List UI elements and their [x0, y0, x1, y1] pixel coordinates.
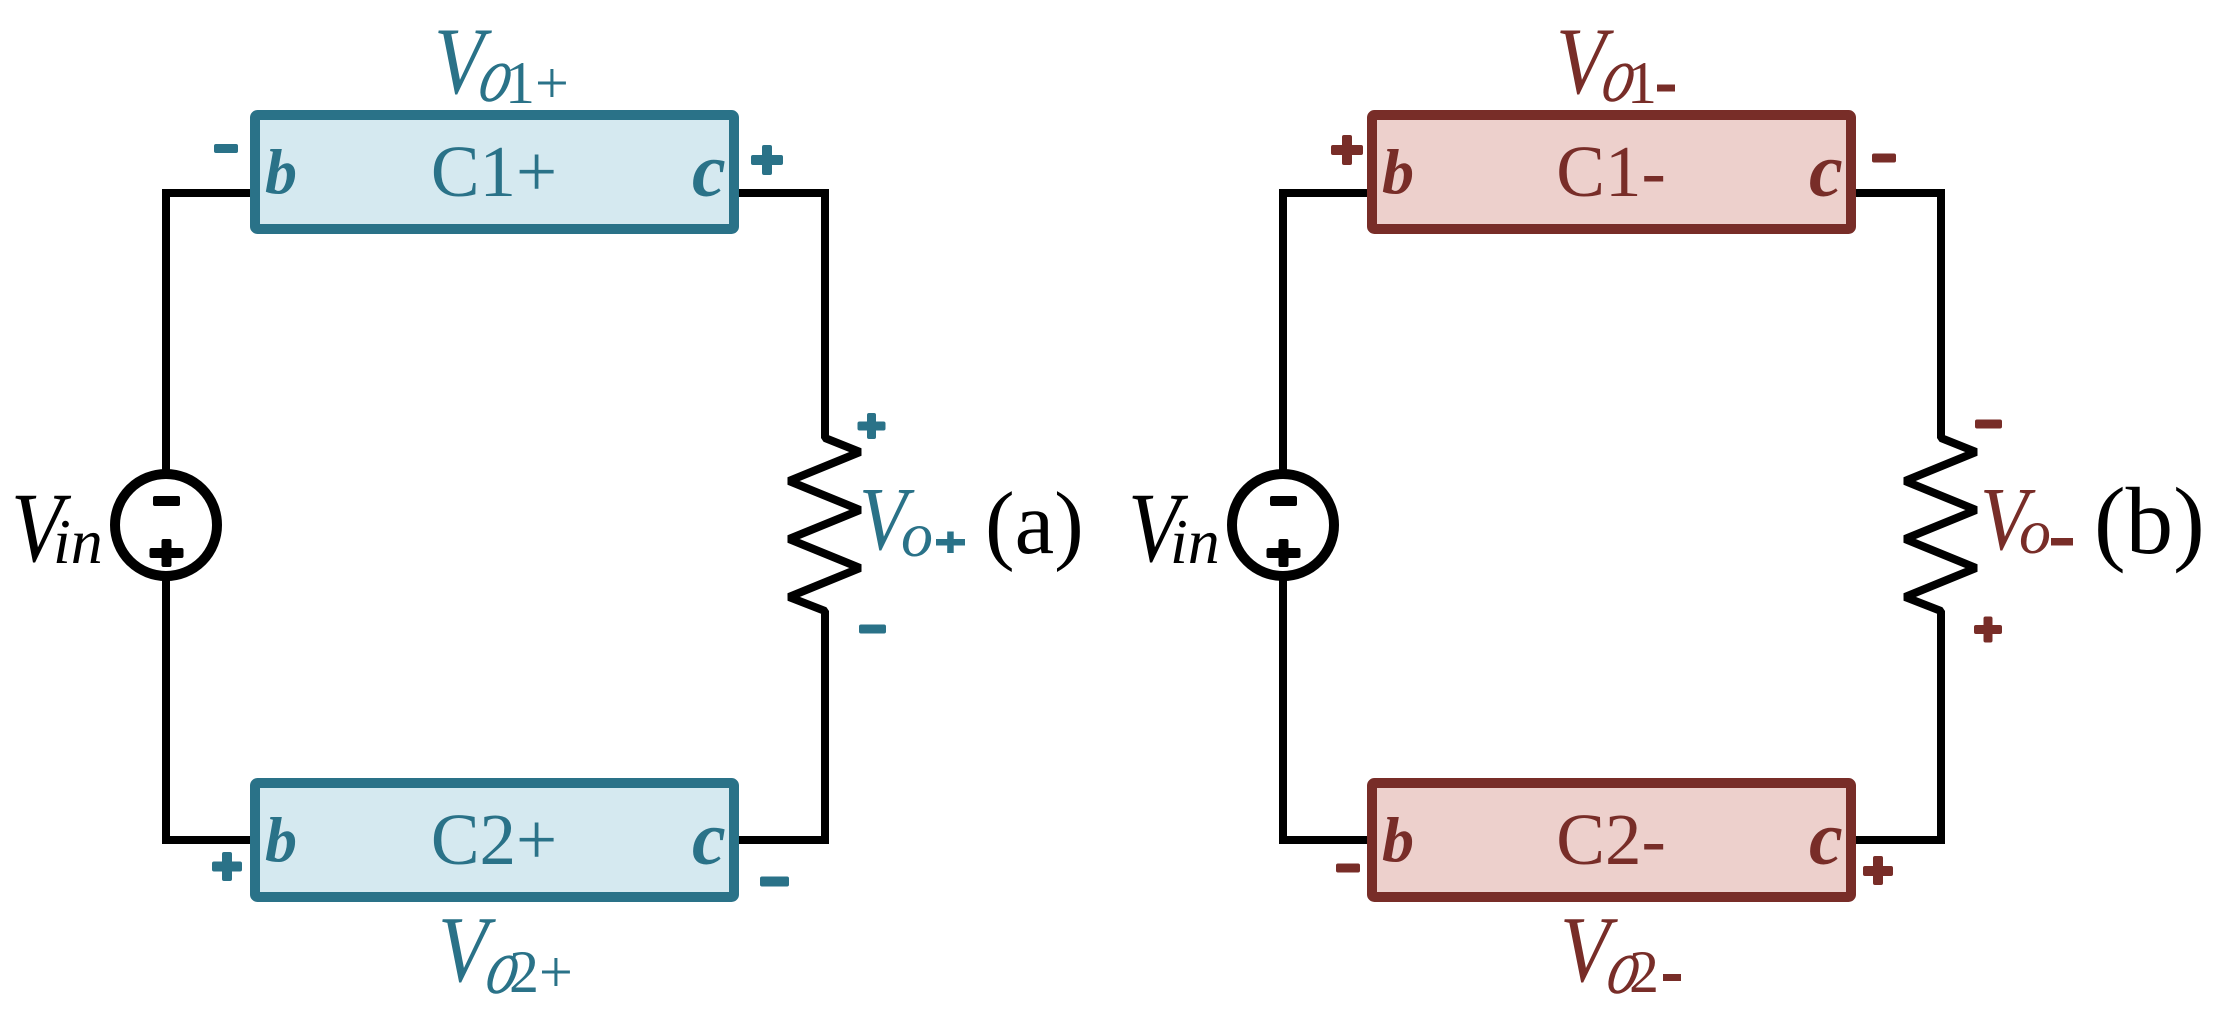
svg-text:c: c: [692, 129, 726, 213]
plus sign right of C1+: [751, 155, 783, 165]
wire: left bottom L (Vin bottom to C2+ b terminal): [166, 578, 258, 840]
wire: left top L (Vin top to C1- b terminal): [1283, 193, 1375, 473]
svg-text:(b): (b): [2094, 468, 2205, 574]
minus sign right of C1-: [1872, 154, 1896, 163]
svg-text:2: 2: [1629, 939, 1659, 1005]
svg-text:C1-: C1-: [1556, 131, 1666, 212]
plus sign left of C1-: [1331, 145, 1363, 155]
block C2-: [1372, 783, 1851, 897]
svg-text:(a): (a): [985, 475, 1084, 573]
plus sign above resistor Ro+: [858, 422, 886, 431]
svg-text:C2+: C2+: [431, 799, 557, 880]
wire: top right L (C1- c terminal to resistor top): [1853, 193, 1941, 405]
svg-text:C1+: C1+: [431, 131, 557, 212]
voltage source Vin (a) circle: [115, 474, 217, 576]
svg-text:1: 1: [1627, 50, 1657, 116]
block C1-: [1372, 115, 1851, 229]
block C1+: [255, 115, 734, 229]
minus sign right of C2+: [760, 877, 789, 887]
svg-text:c: c: [1809, 129, 1843, 213]
plus sign below resistor Ro-: [1974, 625, 2002, 634]
wire: left bottom L (Vin bottom to C2- b terminal): [1283, 578, 1375, 840]
plus sign right of C2-: [1863, 866, 1893, 876]
source Vin (b) plus sign: [1267, 548, 1301, 558]
source Vin (a) minus sign: [153, 496, 180, 506]
voltage source Vin (b) circle: [1232, 474, 1334, 576]
wire: top right L (C1+ c terminal to resistor top): [736, 193, 825, 405]
source Vin (b) minus sign: [1270, 496, 1297, 506]
svg-text:o: o: [901, 499, 933, 570]
svg-text:1+: 1+: [505, 50, 569, 116]
svg-text:o: o: [2019, 496, 2051, 567]
wire: bottom right L (resistor bottom to C2+ c terminal): [736, 645, 825, 840]
minus sign below resistor Ro+: [859, 625, 886, 634]
resistor Ro- zigzag: [1905, 400, 1976, 650]
svg-text:in: in: [53, 506, 103, 577]
plus sign left of C2+: [212, 862, 242, 872]
resistor Ro+ zigzag: [789, 400, 860, 650]
svg-text:in: in: [1170, 506, 1220, 577]
svg-text:2+: 2+: [509, 939, 573, 1005]
svg-text:b: b: [265, 804, 297, 875]
svg-text:b: b: [265, 136, 297, 207]
block C2+: [255, 783, 734, 897]
svg-text:b: b: [1382, 136, 1414, 207]
minus sign left of C2-: [1336, 864, 1360, 873]
source Vin (a) plus sign: [150, 548, 184, 558]
svg-text:b: b: [1382, 804, 1414, 875]
minus sign left of C1+: [214, 144, 238, 153]
wire: left top L (Vin top to C1+ b terminal): [166, 193, 258, 473]
svg-text:C2-: C2-: [1556, 799, 1666, 880]
svg-text:c: c: [692, 797, 726, 881]
wire: bottom right L (resistor bottom to C2- c terminal): [1853, 645, 1941, 840]
minus sign above resistor Ro-: [1975, 420, 2002, 429]
svg-text:c: c: [1809, 797, 1843, 881]
